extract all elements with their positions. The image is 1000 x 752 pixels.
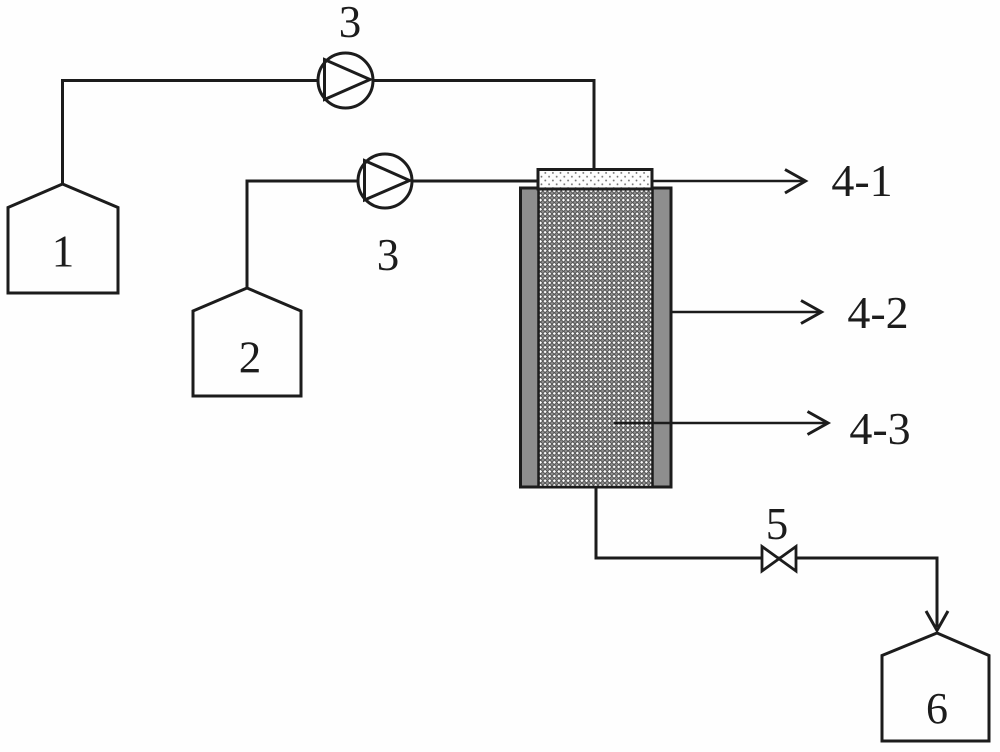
svg-text:4-3: 4-3: [849, 403, 910, 454]
label 3 (lower pump): [377, 230, 400, 280]
label 5: [766, 499, 789, 549]
pump 3 (lower): [358, 154, 412, 208]
arrowhead into tank 6: [926, 611, 948, 631]
svg-text:3: 3: [339, 0, 362, 47]
column top cap (stippled): [538, 170, 652, 190]
svg-text:6: 6: [926, 684, 948, 733]
tank 1: [8, 184, 118, 293]
wire from tank 2 up and across to column left inlet: [247, 181, 539, 288]
label 6: [926, 684, 948, 733]
label 2: [239, 333, 262, 383]
label 4-3: [849, 403, 910, 454]
valve 5: [762, 547, 796, 572]
wire from tank 1 up and across to column top: [63, 81, 595, 187]
tank 2: [193, 288, 301, 396]
wire from column bottom to valve and tank 6: [596, 487, 937, 627]
svg-text:4-2: 4-2: [847, 287, 908, 338]
svg-text:1: 1: [52, 227, 75, 277]
column packed bed (crosshatch): [539, 188, 653, 487]
label 4-2: [847, 287, 908, 338]
svg-text:5: 5: [766, 499, 789, 549]
svg-text:4-1: 4-1: [831, 155, 892, 206]
arrow 4-3: [614, 412, 828, 435]
column outer jacket: [521, 188, 672, 487]
svg-text:2: 2: [239, 333, 262, 383]
arrow 4-2: [671, 301, 822, 324]
arrow 4-1: [652, 170, 806, 194]
pump 3 (upper): [318, 53, 373, 108]
label 3 (upper pump): [339, 0, 362, 47]
svg-text:3: 3: [377, 230, 400, 280]
label 4-1: [831, 155, 892, 206]
tank 6: [882, 633, 989, 741]
label 1: [52, 227, 75, 277]
